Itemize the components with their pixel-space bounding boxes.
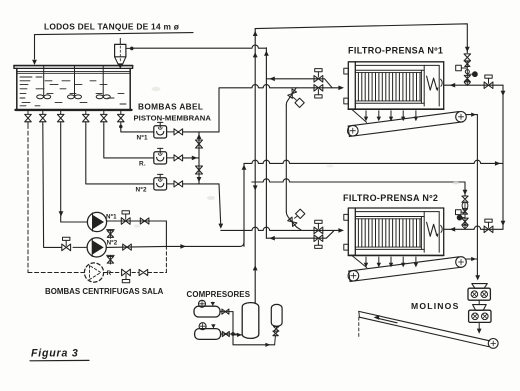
wire: into receiver <box>233 334 242 336</box>
tank outlet valve 1 <box>27 111 29 114</box>
svg-text:Nº2: Nº2 <box>136 187 148 194</box>
wire: dashed riser from R to discharge header <box>165 246 167 272</box>
wire: pump discharge header to filter press 2 feed <box>221 227 340 230</box>
mill No.1 <box>468 288 490 300</box>
pump: Abel piston-membrane pump No.1 <box>154 126 167 138</box>
hopper (cyclone feeder) above tank right end <box>119 38 121 44</box>
wire: suction to Abel pump No.1 <box>121 125 154 132</box>
cake discharge arrows press 1 <box>365 111 367 118</box>
wire: mill discharge to belt <box>478 322 480 330</box>
valve at Abel No.1 discharge <box>167 131 174 133</box>
wire: press-1 squeeze/outlet line to right header <box>444 84 503 86</box>
pipe B: filtrate return pipe to hopper line <box>265 48 267 238</box>
valve: press-1 feed valve (handle below) <box>314 85 323 92</box>
final product conveyor belt <box>359 311 490 340</box>
pump: centrifugal reserve pump R (dashed) <box>84 263 103 282</box>
mill hopper 1 <box>472 284 488 289</box>
wire: conveyor-1 discharge to cake pipe <box>466 114 477 116</box>
svg-text:BOMBAS CENTRIFUGAS SALA: BOMBAS CENTRIFUGAS SALA <box>45 287 164 296</box>
final conveyor roller <box>488 339 498 349</box>
wire: wash line to press outlet pipe (y=163) <box>244 160 503 163</box>
tank outlet valve 4 <box>85 111 87 114</box>
svg-text:FILTRO-PRENSA Nº1: FILTRO-PRENSA Nº1 <box>348 45 443 55</box>
wire: air drop to press-2 stack <box>464 182 466 196</box>
drain valve between pumps 1-2 <box>109 230 111 239</box>
auxiliary small receiver <box>271 304 282 326</box>
conveyor 2 left roller <box>348 270 359 281</box>
tank outlet valve 6 <box>120 111 122 114</box>
wire: conveyor-2 discharge to mills <box>466 258 477 260</box>
conveyor 1 left roller <box>348 125 359 136</box>
valve: press-2 return valve (handle below) <box>314 235 323 242</box>
gauge/valve stack press 2 <box>462 196 468 202</box>
compressor 1 <box>194 306 220 317</box>
agitator 1 <box>43 66 45 96</box>
pump: centrifugal pump No.1 <box>87 212 106 231</box>
pump: centrifugal pump No.2 <box>87 238 106 257</box>
mill funnel between <box>478 300 480 304</box>
tank liquid dashes <box>20 76 32 78</box>
compressor 2 <box>195 329 221 340</box>
drain valve between pump 2 and R <box>109 255 111 264</box>
wire: hopper overflow line to return pipe B <box>126 47 132 49</box>
svg-text:BOMBAS ABEL: BOMBAS ABEL <box>138 101 203 111</box>
wire: air line to press-1 squeeze stack (top) <box>255 24 467 53</box>
filter press No.1 frame <box>344 68 349 74</box>
tank liquid surface <box>17 71 130 73</box>
wire: suction to centrifugal pump No.1 <box>61 125 87 223</box>
valve: press-2 outlet valve <box>484 226 493 233</box>
wire: Abel header to filter press 1 feed <box>219 85 340 88</box>
svg-text:FILTRO-PRENSA Nº2: FILTRO-PRENSA Nº2 <box>343 193 438 203</box>
wire: Abel No.2 drop to press-2 feed line <box>219 184 221 227</box>
filter press No.2 closing gear <box>427 222 437 236</box>
svg-text:Nº1: Nº1 <box>137 135 149 142</box>
tank outlet valve 5 <box>103 111 105 114</box>
wire: press-1 return/bypass line to pipe B <box>266 79 332 88</box>
wire: press-2 return line to pipe B <box>266 231 333 238</box>
wire: dashed suction to centrifugal pump R <box>27 125 29 273</box>
dashed drop at conveyor tail <box>358 317 360 338</box>
wire: Abel discharge ladder manifold <box>198 132 200 184</box>
valve: R discharge gate (dashed line) <box>104 272 120 274</box>
conveyor 1 right roller <box>456 112 467 123</box>
svg-text:Nº2: Nº2 <box>107 240 118 247</box>
gauge/valve stack press 1 <box>464 54 471 61</box>
pump: Abel piston-membrane pump R (reserve) <box>154 152 167 164</box>
pipe: relief header between press 1 and press 2 <box>285 105 287 211</box>
relief assembly press 1 (angle valve + diaphragm) <box>286 88 296 105</box>
wire: air branch to press 2 squeeze stack (y=182) <box>252 179 465 182</box>
wire: centrifugal discharge collector <box>165 221 167 246</box>
svg-text:R.: R. <box>139 161 146 168</box>
chute press 2 <box>352 256 367 268</box>
svg-text:MOLINOS: MOLINOS <box>411 301 460 311</box>
wire: receiver to air riser (pipe A) <box>254 301 256 303</box>
conveyor 2 right roller <box>456 257 467 268</box>
wire: compressor manifold <box>233 312 275 345</box>
wire: suction to Abel pump R <box>104 125 154 158</box>
svg-text:COMPRESORES: COMPRESORES <box>187 290 251 299</box>
valve: centrifugal No.2 discharge <box>106 246 166 247</box>
filter press No.2 plate pack <box>355 216 424 218</box>
wire: feed pipe from 14m tank (label underline) into tank <box>35 33 194 59</box>
valve: centrifugal No.1 discharge gate valve <box>107 220 167 222</box>
trap valves under small receiver <box>274 336 277 345</box>
wire: Abel header riser to press feed line <box>218 88 220 132</box>
wire: suction to Abel pump No.2 <box>86 125 154 184</box>
mill No.2 <box>469 310 491 322</box>
valve: centrifugal No.1 discharge check <box>140 218 149 224</box>
pipe: right vertical header (press1 to press2) <box>502 85 504 229</box>
svg-text:LODOS DEL TANQUE DE 14 m ø: LODOS DEL TANQUE DE 14 m ø <box>44 22 180 32</box>
scan smudges (paper texture) <box>207 196 215 200</box>
valve: compressor 1 discharge <box>220 311 233 313</box>
valve: ladder lower isolation <box>196 166 203 174</box>
valve: ladder upper isolation <box>196 140 203 148</box>
svg-text:R: R <box>107 270 112 277</box>
valve at Abel No.2 discharge <box>167 183 174 185</box>
tank outlet valve 3 <box>60 111 62 114</box>
wire: pump discharge riser (centrifugal) <box>243 163 245 246</box>
cake discharge arrows press 2 <box>365 257 367 264</box>
wire: suction to centrifugal pump No.2 <box>43 125 61 248</box>
valve: press-1 outlet valve <box>484 82 493 89</box>
valve: centrifugal No.2 suction gate valve <box>62 244 71 251</box>
valve: press-1 bypass valve (handle above) <box>314 76 323 83</box>
pipe A: compressed-air riser from receiver to press squeeze lines <box>254 29 256 303</box>
valve at Abel R discharge <box>167 157 174 159</box>
wire: press-2 squeeze/outlet line <box>444 226 503 229</box>
relief assembly press 2 (angle valve + diaphragm) <box>286 211 301 229</box>
pipe: cake drop pipe (conveyors to mills) <box>476 115 478 277</box>
svg-text:Nº1: Nº1 <box>106 214 117 221</box>
tank: agitated sludge tank <box>14 65 133 67</box>
conveyor belt under press 1 <box>348 112 459 127</box>
valve: press-2 feed valve (handle above) <box>314 227 323 234</box>
conveyor belt under press 2 <box>349 257 459 271</box>
air receiver (vertical tank) <box>242 303 259 339</box>
chute press 1 <box>352 109 367 122</box>
valve: compressor 2 discharge <box>221 333 233 335</box>
filter press No.2 frame <box>344 214 349 220</box>
wire: centrifugal discharge header to riser <box>166 230 244 246</box>
pump: Abel piston-membrane pump No.2 <box>154 178 167 190</box>
filter press No.1 plate pack <box>355 69 424 71</box>
svg-text:Figura 3: Figura 3 <box>31 347 79 359</box>
filter press No.1 closing gear <box>427 76 437 90</box>
svg-text:PISTON-MEMBRANA: PISTON-MEMBRANA <box>134 114 212 123</box>
final conveyor travel arrow <box>377 318 397 323</box>
tank outlet valve 2 <box>42 111 44 114</box>
